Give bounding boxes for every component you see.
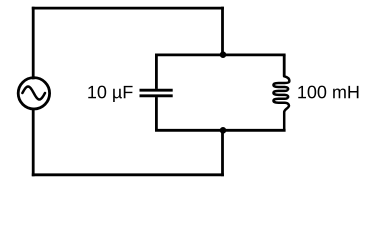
wire inner top rail (node A between capacitor and inductor): [156, 54, 284, 57]
wire bottom rail (source to node B rise): [33, 173, 222, 176]
wire left vertical upper (source top lead): [32, 8, 35, 78]
node B junction dot (bottom): [220, 127, 227, 134]
wire right rise from bottom rail to node B: [221, 130, 224, 175]
inductor 100 mH: [273, 55, 289, 130]
wire right drop from top rail to node A: [221, 8, 224, 55]
wire left vertical lower (source bottom lead): [32, 109, 35, 175]
AC voltage source: [18, 78, 49, 109]
node A junction dot (top): [220, 51, 227, 58]
wire inner bottom rail (node B between capacitor and inductor): [156, 129, 284, 132]
inductor value label 100 mH: [298, 86, 358, 99]
capacitor value label 10 uF: [88, 86, 132, 102]
capacitor 10 uF: [140, 55, 173, 130]
wire top rail (source to node A drop): [33, 7, 222, 10]
